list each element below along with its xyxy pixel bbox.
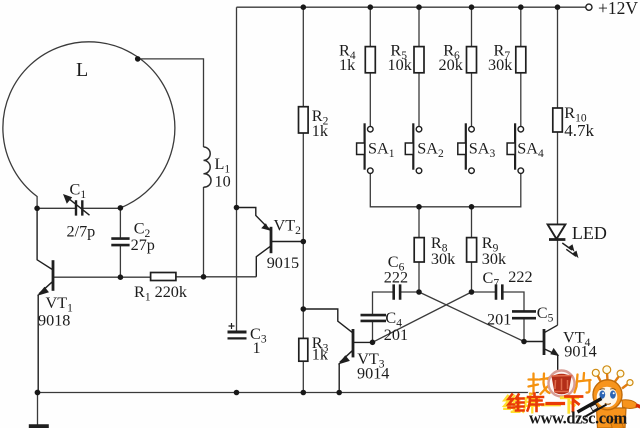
junction SA bus-R9: [469, 204, 475, 210]
svg-text:9014: 9014: [357, 365, 389, 383]
svg-text:SA2: SA2: [417, 140, 444, 161]
wire base line VT1 to R1: [53, 276, 151, 278]
wire R1 right to VT2 collector corner: [176, 276, 256, 278]
wire R3 bottom: [302, 361, 304, 392]
watermark mascot: [592, 366, 640, 428]
svg-text:C1: C1: [70, 181, 87, 202]
svg-text:1: 1: [253, 339, 261, 357]
junction loop-left C1: [34, 206, 40, 212]
watermark logo zhao char: [529, 374, 551, 395]
svg-text:1k: 1k: [339, 56, 356, 74]
junction rail-R5: [416, 4, 422, 10]
wire R9 bottom: [471, 262, 473, 292]
wire SA2 to R8: [418, 207, 420, 238]
junction loop-right C2: [118, 205, 124, 211]
wire SA3 to R9: [471, 207, 473, 238]
wire L1 bottom to R1 node: [203, 187, 205, 277]
resistor R7: [516, 47, 526, 73]
svg-text:www.dzsc.com: www.dzsc.com: [529, 409, 628, 428]
junction loop-top: [135, 56, 141, 62]
svg-text:L: L: [76, 59, 88, 81]
resistor R4: [365, 47, 375, 73]
wire R6 top: [471, 7, 473, 46]
svg-text:1k: 1k: [312, 122, 329, 140]
svg-text:27p: 27p: [131, 236, 155, 254]
capacitor C7: [496, 284, 502, 299]
wire C7 left to R9 node: [472, 291, 496, 293]
wire R7 to SA4: [520, 73, 522, 127]
watermark logo magnifier circle: [549, 371, 575, 397]
transistor VT1: [37, 208, 53, 392]
wire C7 right to C5: [502, 292, 524, 311]
wire C4 bottom to VT3 base node: [372, 321, 374, 342]
svg-text:SA3: SA3: [469, 140, 496, 161]
wire LED to VT4 collector: [557, 240, 559, 326]
wire R8 bottom: [418, 262, 420, 292]
wire C6 left to C4: [373, 292, 394, 315]
svg-text:20k: 20k: [439, 56, 464, 74]
wire R7 top: [520, 7, 522, 46]
svg-text:30k: 30k: [482, 250, 507, 268]
resistor R3: [299, 338, 308, 361]
junction R9-C7 node: [469, 289, 475, 295]
svg-text:C5: C5: [537, 304, 554, 325]
wire C2 bottom: [119, 246, 121, 277]
resistor R6: [467, 47, 477, 73]
capacitor C2: [111, 239, 129, 246]
svg-text:+12V: +12V: [598, 0, 638, 18]
wire cross coupling B: [419, 292, 524, 342]
junction VT4 base node: [521, 339, 527, 345]
wire C2 top: [119, 208, 121, 238]
resistor R10: [553, 108, 563, 132]
junction rail-R4: [368, 4, 374, 10]
resistor R5: [414, 47, 424, 73]
watermark mascot pen: [578, 399, 607, 418]
svg-text:201: 201: [384, 326, 408, 344]
junction ground-VT1 emitter: [35, 390, 41, 396]
svg-text:9018: 9018: [38, 311, 70, 329]
transistor VT4: [524, 325, 559, 392]
svg-text:C7: C7: [483, 269, 500, 290]
wire R2 bottom to VT2 base and VT3 collector and R3: [302, 133, 304, 338]
svg-text:10: 10: [215, 173, 231, 191]
switch SA3: [458, 123, 475, 173]
svg-text:222: 222: [508, 268, 532, 286]
terminal +12V: [586, 4, 592, 10]
wire SA bottom bus: [370, 174, 521, 207]
svg-text:222: 222: [384, 269, 408, 287]
wire C1 left: [37, 207, 75, 209]
wire cross coupling A: [373, 292, 472, 342]
svg-text:SA1: SA1: [368, 140, 395, 161]
junction rail-R10: [555, 4, 561, 10]
junction rail-R2: [301, 4, 307, 10]
junction rail-R7: [518, 4, 524, 10]
svg-text:9015: 9015: [267, 254, 299, 272]
wire +12V rail: [237, 6, 586, 8]
capacitor C5: [512, 311, 536, 318]
junction VT2 emitter node: [234, 205, 240, 211]
junction rail-R6: [469, 4, 475, 10]
switch SA2: [405, 123, 422, 173]
switch SA4: [507, 123, 523, 173]
capacitor C3 electrolytic: [228, 323, 247, 338]
resistor R8: [414, 238, 424, 262]
wire R4 to SA1: [369, 73, 371, 127]
junction R1-L1 node: [201, 274, 207, 280]
wire rail corner down to C3: [236, 7, 238, 331]
wire C1 right: [83, 207, 121, 209]
transistor VT3: [303, 309, 372, 393]
junction VT3 base node: [370, 340, 376, 346]
junction SA bus-R8: [416, 204, 422, 210]
wire R2 top: [302, 7, 304, 107]
svg-text:10k: 10k: [388, 56, 413, 74]
junction ground-VT3 emitter: [336, 390, 342, 396]
svg-text:2/7p: 2/7p: [67, 223, 96, 241]
capacitor C1 variable: [63, 194, 90, 216]
junction VT2 base node: [301, 239, 307, 245]
junction R8-C6 node: [416, 289, 422, 295]
resistor R9: [467, 238, 477, 262]
LED D1: [548, 224, 579, 258]
loop antenna L: [3, 42, 175, 208]
watermark weikuyixia: [504, 394, 582, 413]
wire R5 to SA2: [418, 73, 420, 127]
inductor L1: [204, 147, 212, 187]
wire R10 top: [557, 7, 559, 108]
capacitor C6: [394, 284, 400, 299]
junction ground-C3: [234, 390, 240, 396]
svg-text:1k: 1k: [312, 346, 329, 364]
resistor R2: [299, 107, 309, 133]
wire R10 to LED: [557, 132, 559, 224]
wire C5 bottom to VT4 base node: [523, 318, 525, 341]
switch SA1: [357, 123, 374, 173]
resistor R1: [151, 273, 176, 281]
svg-text:30k: 30k: [488, 56, 513, 74]
wire R5 top: [418, 7, 420, 46]
svg-text:4.7k: 4.7k: [564, 121, 594, 140]
watermark logo pian char: [575, 373, 591, 393]
wire loop-top to L1: [138, 59, 204, 147]
wire C6 right to R8 node: [400, 291, 419, 293]
junction VT3 collector node: [301, 306, 307, 312]
svg-text:R1 220k: R1 220k: [134, 283, 188, 304]
wire R4 top: [369, 7, 371, 46]
capacitor C4: [361, 315, 387, 321]
svg-text:LED: LED: [572, 223, 607, 243]
junction ground-R3: [301, 390, 307, 396]
wire R6 to SA3: [471, 73, 473, 127]
transistor VT2: [237, 208, 304, 277]
svg-text:9014: 9014: [564, 342, 596, 360]
wire ground bus: [38, 392, 558, 394]
svg-text:30k: 30k: [431, 250, 456, 268]
svg-text:201: 201: [487, 310, 511, 328]
svg-text:SA4: SA4: [517, 140, 544, 161]
ground: [29, 424, 49, 428]
wire ground stem: [37, 393, 39, 426]
junction VT1 base C2: [118, 274, 124, 280]
svg-text:VT2: VT2: [274, 216, 302, 237]
